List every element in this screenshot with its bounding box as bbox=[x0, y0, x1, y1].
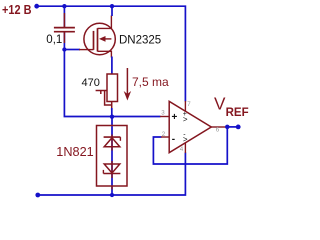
svg-text:+12 В: +12 В bbox=[2, 2, 32, 17]
svg-text:1N821: 1N821 bbox=[56, 145, 93, 159]
svg-text:REF: REF bbox=[226, 107, 249, 119]
wire drain stub bbox=[111, 6, 113, 16]
pin stub + input bbox=[160, 116, 169, 118]
wire zener branch bbox=[111, 117, 113, 195]
node terminal +12V bbox=[34, 4, 39, 9]
diode box 1N821 bbox=[97, 126, 128, 187]
wire resistor bottom to node bbox=[111, 108, 113, 117]
node junction drain top bbox=[110, 4, 114, 8]
pin stub output bbox=[211, 126, 227, 128]
wire feedback loop bbox=[153, 127, 227, 164]
zener diode D1 bbox=[104, 135, 121, 151]
pin stub 7 bbox=[184, 101, 186, 112]
svg-text:4: 4 bbox=[180, 146, 184, 153]
svg-text:470: 470 bbox=[82, 77, 100, 89]
node terminal Vref bbox=[236, 125, 241, 130]
svg-text:V: V bbox=[214, 94, 226, 114]
wire left rail down and + input wire bbox=[64, 50, 160, 117]
svg-text:>: > bbox=[183, 115, 188, 124]
wire source to resistor bbox=[111, 57, 113, 75]
capacitor C1 0,1 bbox=[54, 13, 75, 43]
wire capacitor branch bbox=[63, 6, 65, 27]
wire bottom rail and op-amp V- pin4 wire bbox=[38, 153, 186, 196]
zener diode D2 bbox=[103, 161, 120, 190]
svg-text:0,1: 0,1 bbox=[46, 34, 62, 46]
svg-text:-: - bbox=[172, 134, 175, 145]
resistor R1 470 trimmer bbox=[96, 74, 118, 110]
node junction resistor/zener/+input bbox=[110, 115, 114, 119]
node junction cap top bbox=[62, 4, 66, 8]
svg-text:3: 3 bbox=[161, 110, 165, 117]
node junction zener bottom bbox=[110, 193, 114, 197]
pin stub - input bbox=[161, 136, 169, 138]
svg-text:7: 7 bbox=[187, 101, 191, 108]
wire output to terminal bbox=[227, 126, 238, 128]
svg-text:>: > bbox=[183, 135, 188, 144]
svg-text:+: + bbox=[172, 112, 178, 123]
pin stub 4 bbox=[184, 143, 186, 153]
current arrow 7,5 ma bbox=[126, 68, 128, 95]
svg-text:DN2325: DN2325 bbox=[119, 34, 161, 46]
wire top rail and op-amp V+ pin7 wire bbox=[37, 6, 186, 101]
svg-text:7,5 ma: 7,5 ma bbox=[132, 75, 169, 89]
node junction output bbox=[225, 125, 230, 129]
triangle body bbox=[169, 101, 211, 152]
wire gate bbox=[64, 49, 80, 51]
svg-text:6: 6 bbox=[216, 127, 220, 134]
op-amp U1 bbox=[160, 101, 227, 153]
svg-text:2: 2 bbox=[162, 131, 166, 138]
transistor Q1 DN2325 bbox=[79, 16, 115, 58]
node junction gate / cap bottom bbox=[62, 47, 66, 51]
node terminal bottom left bbox=[35, 193, 40, 198]
